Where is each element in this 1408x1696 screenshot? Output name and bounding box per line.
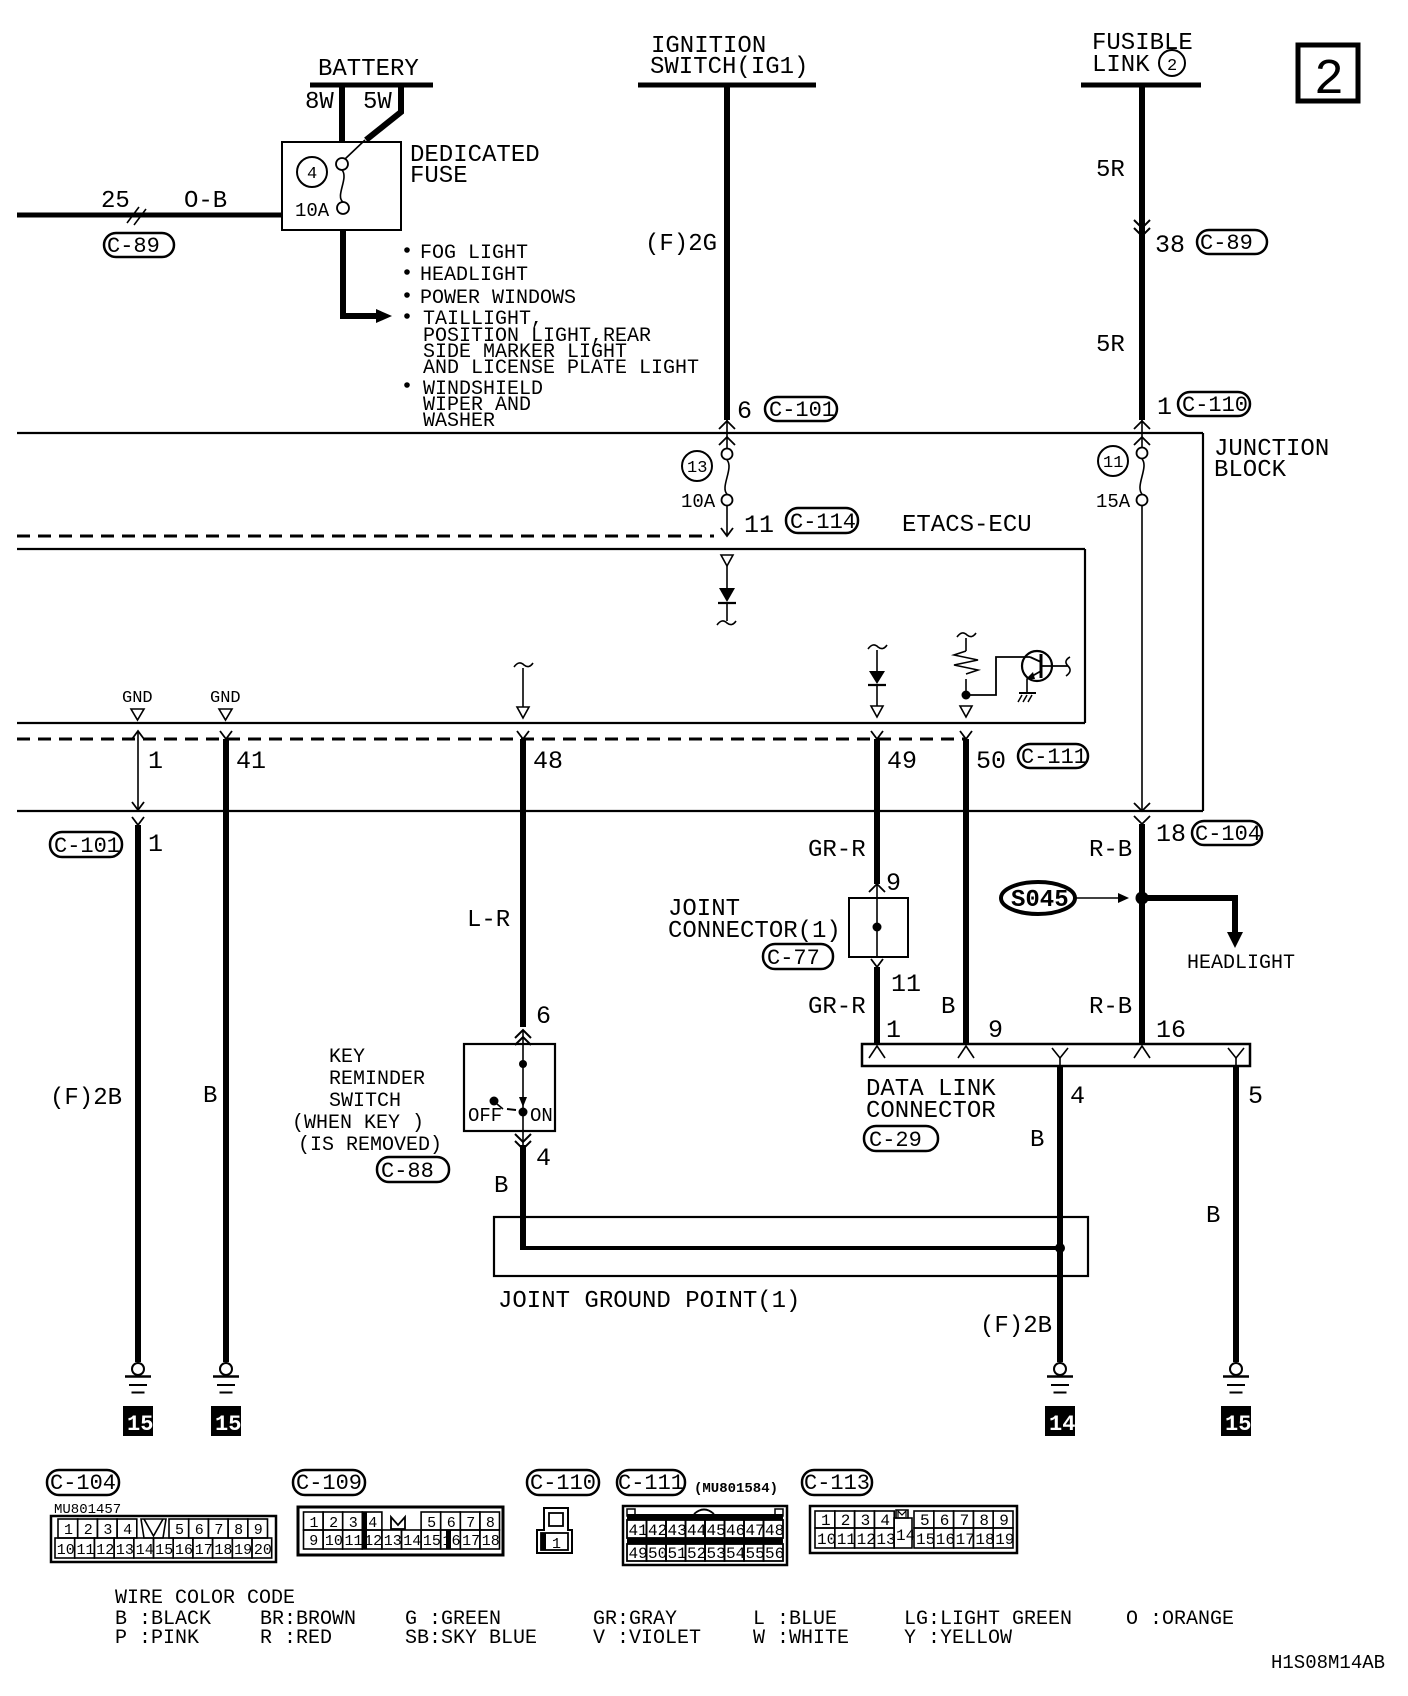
label 5R upper xyxy=(1096,157,1125,184)
svg-text:15: 15 xyxy=(916,1531,935,1549)
dedicated fuse box xyxy=(282,142,401,230)
ignition switch label xyxy=(650,33,808,81)
svg-text:52: 52 xyxy=(687,1545,706,1563)
transistor Q1 xyxy=(1022,651,1052,693)
label GR-R upper xyxy=(808,837,866,864)
svg-text:5: 5 xyxy=(175,1522,184,1539)
GND pin 1 xyxy=(122,689,153,720)
svg-text:C-110: C-110 xyxy=(530,1471,596,1496)
svg-text:OFF: OFF xyxy=(468,1105,502,1127)
svg-text:H1S08M14AB: H1S08M14AB xyxy=(1271,1652,1385,1674)
diode D1 xyxy=(717,588,736,625)
svg-text:50: 50 xyxy=(976,747,1006,776)
svg-text:C-104: C-104 xyxy=(50,1471,116,1496)
fuse number circle 4 xyxy=(297,157,327,187)
svg-text:C-110: C-110 xyxy=(1182,393,1248,418)
wire key switch to ground point xyxy=(520,1145,526,1247)
svg-text:C-88: C-88 xyxy=(381,1159,434,1184)
svg-text:1: 1 xyxy=(886,1016,901,1045)
svg-text:10: 10 xyxy=(325,1533,343,1550)
svg-text:17: 17 xyxy=(195,1542,213,1559)
svg-text:CONNECTOR: CONNECTOR xyxy=(866,1098,996,1125)
label pin 4 key switch xyxy=(536,1144,551,1173)
svg-text:GND: GND xyxy=(210,689,241,708)
ETACS-ECU box top edge xyxy=(17,548,1085,550)
DLC terminal pin 4 xyxy=(1052,1048,1068,1066)
label (F)2B left xyxy=(50,1085,122,1112)
joint ground point box xyxy=(494,1217,1088,1276)
svg-text:4: 4 xyxy=(123,1522,132,1539)
DLC terminal pin 5 xyxy=(1228,1048,1244,1066)
svg-text:B: B xyxy=(1030,1127,1044,1154)
svg-text:13: 13 xyxy=(687,459,707,478)
connector C-110 top xyxy=(1178,392,1250,418)
drawing number xyxy=(1271,1652,1385,1674)
C-111 body xyxy=(623,1506,787,1565)
svg-text:15: 15 xyxy=(1225,1412,1251,1437)
C-110 body xyxy=(537,1508,572,1553)
svg-text:50: 50 xyxy=(648,1545,667,1563)
svg-text:18: 18 xyxy=(482,1533,500,1550)
label pin 16 DLC xyxy=(1156,1016,1186,1045)
fuse number circle 11 xyxy=(1098,446,1128,476)
label MU801584 xyxy=(694,1481,778,1497)
svg-text:R :RED: R :RED xyxy=(260,1627,332,1650)
joint ground point label xyxy=(498,1288,800,1315)
svg-text:C-111: C-111 xyxy=(618,1471,684,1496)
svg-text:C-101: C-101 xyxy=(769,398,835,423)
connector C-114 xyxy=(786,508,858,535)
svg-text:KEY: KEY xyxy=(329,1046,365,1069)
svg-text:15: 15 xyxy=(127,1412,153,1437)
svg-text:ON: ON xyxy=(530,1105,553,1127)
fusible link bus bar xyxy=(1081,83,1201,88)
wire color code legend xyxy=(115,1587,1234,1650)
label pin 41 xyxy=(236,747,266,776)
svg-text:17: 17 xyxy=(462,1533,480,1550)
svg-text:10A: 10A xyxy=(681,491,716,513)
svg-text:38: 38 xyxy=(1155,231,1185,260)
svg-text:4: 4 xyxy=(307,165,317,184)
svg-text:16: 16 xyxy=(936,1531,955,1549)
connector C-111 mid xyxy=(1018,744,1088,770)
junction block right edge xyxy=(1202,433,1204,811)
svg-text:4: 4 xyxy=(368,1515,377,1532)
fusible link label xyxy=(1092,30,1193,79)
svg-text:HEADLIGHT: HEADLIGHT xyxy=(1187,952,1295,975)
svg-text:LINK: LINK xyxy=(1092,52,1150,79)
svg-text:16: 16 xyxy=(443,1533,461,1550)
label B DLC5 xyxy=(1206,1203,1220,1230)
chevrons wire break 38 xyxy=(1134,220,1150,236)
svg-text:41: 41 xyxy=(236,747,266,776)
svg-text:44: 44 xyxy=(687,1522,706,1540)
svg-text:6: 6 xyxy=(536,1002,551,1031)
GND pin 41 xyxy=(210,689,241,720)
svg-text:7: 7 xyxy=(466,1515,475,1532)
svg-text:15A: 15A xyxy=(1096,491,1131,513)
label pin 1 DLC xyxy=(886,1016,901,1045)
svg-text:BATTERY: BATTERY xyxy=(318,56,419,83)
svg-text:5: 5 xyxy=(1248,1082,1263,1111)
C-113 body xyxy=(810,1506,1017,1553)
svg-text:(F)2B: (F)2B xyxy=(50,1085,122,1112)
splice S045 xyxy=(1001,882,1075,914)
connector C-89 left xyxy=(104,233,174,259)
svg-text:(F)2G: (F)2G xyxy=(645,231,717,258)
connector C-111 pinout xyxy=(617,1470,685,1496)
label pin 50 xyxy=(976,747,1006,776)
svg-text:6: 6 xyxy=(447,1515,456,1532)
svg-text:GR-R: GR-R xyxy=(808,837,866,864)
svg-text:P :PINK: P :PINK xyxy=(115,1627,199,1650)
svg-text:C-77: C-77 xyxy=(767,946,820,971)
svg-text:SB:SKY BLUE: SB:SKY BLUE xyxy=(405,1627,537,1650)
svg-text:56: 56 xyxy=(765,1545,784,1563)
svg-text:GR-R: GR-R xyxy=(808,994,866,1021)
svg-text:5: 5 xyxy=(427,1515,436,1532)
wire break slashes xyxy=(127,207,146,225)
label pin 9 joint connector xyxy=(886,869,901,898)
svg-text:14: 14 xyxy=(896,1527,915,1545)
svg-text:9: 9 xyxy=(886,869,901,898)
joint connector exit arrow xyxy=(871,959,883,967)
label L-R xyxy=(467,907,510,934)
label 5R lower xyxy=(1096,332,1125,359)
svg-text:25: 25 xyxy=(101,188,130,215)
connector C-77 xyxy=(763,944,833,971)
wire 25 O-B from C-89 xyxy=(17,213,283,218)
label pin 11 joint connector xyxy=(891,970,921,999)
svg-text:B: B xyxy=(494,1173,508,1200)
label 5W xyxy=(363,89,392,116)
svg-text:1: 1 xyxy=(310,1515,319,1532)
wire DLC5 B down xyxy=(1233,1066,1239,1362)
svg-text:4: 4 xyxy=(536,1144,551,1173)
svg-text:54: 54 xyxy=(726,1545,745,1563)
ETACS pin 49 exit triangle xyxy=(871,706,883,717)
svg-text:POWER WINDOWS: POWER WINDOWS xyxy=(420,287,576,310)
svg-text:8: 8 xyxy=(486,1515,495,1532)
svg-text:HEADLIGHT: HEADLIGHT xyxy=(420,264,528,287)
connector C-89 right xyxy=(1197,230,1267,256)
wire 41 B to ground xyxy=(220,731,232,1362)
svg-text:11: 11 xyxy=(77,1542,95,1559)
svg-text:C-101: C-101 xyxy=(54,834,120,859)
joint connector C-77 box xyxy=(849,898,908,957)
wire 49 GR-R upper xyxy=(871,731,883,884)
svg-text:C-104: C-104 xyxy=(1195,822,1261,847)
label pin 18 C-104 xyxy=(1156,820,1186,849)
svg-text:2: 2 xyxy=(84,1522,93,1539)
battery label xyxy=(318,56,419,83)
ETACS pin 50 exit triangle xyxy=(960,706,972,717)
svg-text:WASHER: WASHER xyxy=(423,410,495,433)
svg-text:14: 14 xyxy=(403,1533,421,1550)
svg-text:8W: 8W xyxy=(305,89,334,116)
joint connector label xyxy=(668,896,841,945)
svg-text:(WHEN KEY ): (WHEN KEY ) xyxy=(292,1112,424,1135)
label pin 1 lower xyxy=(148,830,163,859)
junction block bus dashed lower xyxy=(17,738,966,741)
label (F)2B right xyxy=(980,1313,1052,1340)
connector C-113 pinout xyxy=(802,1470,872,1496)
svg-text:3: 3 xyxy=(349,1515,358,1532)
svg-text:O-B: O-B xyxy=(184,188,227,215)
svg-text:(MU801584): (MU801584) xyxy=(694,1481,778,1497)
label 15A fuse 11 xyxy=(1096,491,1131,513)
connector C-109 pinout xyxy=(293,1470,365,1496)
ground ref box 14 xyxy=(1045,1406,1075,1437)
label OFF xyxy=(468,1105,502,1127)
ground ref box 15 a xyxy=(123,1406,153,1437)
svg-text:R-B: R-B xyxy=(1089,994,1132,1021)
ground symbol DLC5 xyxy=(1223,1363,1249,1393)
svg-text:12: 12 xyxy=(857,1531,876,1549)
ground transistor emitter xyxy=(1018,693,1036,702)
wire fuse 13 to ETACS xyxy=(721,506,733,536)
svg-text:10: 10 xyxy=(57,1542,75,1559)
svg-text:ETACS-ECU: ETACS-ECU xyxy=(902,512,1032,539)
svg-text:FOG LIGHT: FOG LIGHT xyxy=(420,242,528,265)
svg-text:20: 20 xyxy=(254,1542,272,1559)
svg-text:B: B xyxy=(941,994,955,1021)
svg-text:CONNECTOR(1): CONNECTOR(1) xyxy=(668,918,841,945)
svg-text:5W: 5W xyxy=(363,89,392,116)
key switch exit chevrons xyxy=(515,1131,531,1149)
svg-text:16: 16 xyxy=(175,1542,193,1559)
svg-text:13: 13 xyxy=(384,1533,402,1550)
junction block bus dashed upper xyxy=(17,535,714,538)
svg-text:1: 1 xyxy=(552,1536,561,1553)
ground ref box 15 b xyxy=(211,1406,241,1437)
svg-text:11: 11 xyxy=(1103,454,1123,473)
label MU801457 xyxy=(54,1502,121,1518)
svg-text:42: 42 xyxy=(648,1522,667,1540)
svg-text:4: 4 xyxy=(1070,1082,1085,1111)
wire 50 B to DLC9 xyxy=(960,731,972,1044)
ground symbol wire41 xyxy=(213,1363,239,1393)
svg-text:11: 11 xyxy=(891,970,921,999)
connector C-29 xyxy=(864,1126,938,1153)
label pin 1 C-110 xyxy=(1157,393,1172,422)
svg-text:5R: 5R xyxy=(1096,332,1125,359)
svg-text:11: 11 xyxy=(345,1533,363,1550)
label B wire41 xyxy=(203,1083,217,1110)
key reminder switch box xyxy=(464,1044,555,1131)
fuse F13 element xyxy=(722,449,733,506)
ground symbol DLC4 xyxy=(1047,1363,1073,1393)
svg-text:6: 6 xyxy=(195,1522,204,1539)
fusible wire block entry arrows xyxy=(1134,420,1150,447)
svg-text:48: 48 xyxy=(533,747,563,776)
svg-text:C-114: C-114 xyxy=(790,510,856,535)
label O-B xyxy=(184,188,227,215)
svg-text:2: 2 xyxy=(1167,57,1177,76)
node S045 junction xyxy=(1136,892,1149,905)
svg-text:C-109: C-109 xyxy=(296,1471,362,1496)
svg-text:10A: 10A xyxy=(295,200,330,222)
svg-text:12: 12 xyxy=(96,1542,114,1559)
connector C-88 xyxy=(377,1157,449,1184)
wire fusible link 5R upper xyxy=(1139,85,1145,420)
connector C-110 pinout xyxy=(527,1470,599,1496)
svg-text:BLOCK: BLOCK xyxy=(1214,457,1287,484)
dedicated fuse label xyxy=(410,142,540,190)
label R-B lower xyxy=(1089,994,1132,1021)
junction block label xyxy=(1214,436,1329,484)
svg-text:18: 18 xyxy=(214,1542,232,1559)
ground ref box 15 c xyxy=(1221,1406,1251,1437)
svg-text:43: 43 xyxy=(668,1522,687,1540)
connector C-104 pinout xyxy=(47,1470,119,1496)
svg-text:49: 49 xyxy=(887,747,917,776)
svg-text:15: 15 xyxy=(155,1542,173,1559)
label pin 6 key switch xyxy=(536,1002,551,1031)
label 25 xyxy=(101,188,130,215)
svg-text:15: 15 xyxy=(215,1412,241,1437)
svg-text:2: 2 xyxy=(329,1515,338,1532)
svg-text:Y :YELLOW: Y :YELLOW xyxy=(904,1627,1012,1650)
label pin 49 xyxy=(887,747,917,776)
svg-text:6: 6 xyxy=(737,397,752,426)
svg-text:GND: GND xyxy=(122,689,153,708)
svg-text:15: 15 xyxy=(423,1533,441,1550)
ignition switch bus bar xyxy=(638,83,816,88)
label pin 6 xyxy=(737,397,752,426)
wire R-B fusible to DLC16 xyxy=(1139,824,1145,1044)
key switch OFF contact xyxy=(490,1097,517,1111)
svg-text:5R: 5R xyxy=(1096,157,1125,184)
svg-text:1: 1 xyxy=(148,747,163,776)
label R-B upper xyxy=(1089,837,1132,864)
label pin 11 C-114 xyxy=(744,511,774,540)
svg-text:WIRE COLOR CODE: WIRE COLOR CODE xyxy=(115,1587,295,1610)
svg-text:53: 53 xyxy=(707,1545,726,1563)
C-104 body xyxy=(51,1516,276,1562)
svg-text:C-89: C-89 xyxy=(107,234,160,259)
svg-text:46: 46 xyxy=(726,1522,745,1540)
ETACS pin 48 stub xyxy=(514,663,533,718)
svg-text:17: 17 xyxy=(956,1531,975,1549)
svg-text:55: 55 xyxy=(746,1545,765,1563)
svg-text:O :ORANGE: O :ORANGE xyxy=(1126,1608,1234,1631)
svg-text:11: 11 xyxy=(744,511,774,540)
DLC terminal pin 1 xyxy=(869,1046,885,1058)
svg-text:1: 1 xyxy=(64,1522,73,1539)
svg-text:REMINDER: REMINDER xyxy=(329,1068,425,1091)
node ground bus junction xyxy=(1055,1243,1065,1253)
svg-text:51: 51 xyxy=(668,1545,687,1563)
label ON xyxy=(530,1105,553,1127)
connector C-104 top xyxy=(1192,821,1262,847)
svg-text:W :WHITE: W :WHITE xyxy=(753,1627,849,1650)
wire DLC4 B down xyxy=(1057,1066,1063,1362)
svg-text:9: 9 xyxy=(988,1016,1003,1045)
svg-text:B: B xyxy=(1206,1203,1220,1230)
svg-text:13: 13 xyxy=(116,1542,134,1559)
svg-text:JOINT GROUND POINT(1): JOINT GROUND POINT(1) xyxy=(498,1288,800,1315)
svg-text:(F)2B: (F)2B xyxy=(980,1313,1052,1340)
svg-text:10: 10 xyxy=(817,1531,836,1549)
ETACS-ECU label xyxy=(902,512,1032,539)
DLC terminal pin 16 xyxy=(1134,1046,1150,1058)
load list bullets xyxy=(404,247,410,388)
IG1 wire block entry arrows xyxy=(719,420,735,448)
svg-text:SWITCH(IG1): SWITCH(IG1) xyxy=(650,54,808,81)
svg-text:9: 9 xyxy=(309,1533,318,1550)
connector C-101 bottom xyxy=(50,832,122,859)
label pin 1 upper xyxy=(148,747,163,776)
wire 49 GR-R lower xyxy=(874,967,880,1044)
data link connector box xyxy=(862,1044,1250,1066)
svg-text:41: 41 xyxy=(629,1522,648,1540)
svg-text:19: 19 xyxy=(234,1542,252,1559)
label pin 4 xyxy=(1070,1082,1085,1111)
label B DLC4 xyxy=(1030,1127,1044,1154)
label pin 5 xyxy=(1248,1082,1263,1111)
svg-text:FUSE: FUSE xyxy=(410,163,468,190)
connector C-101 top xyxy=(765,397,837,423)
label pin 9 DLC xyxy=(988,1016,1003,1045)
label GR-R lower xyxy=(808,994,866,1021)
svg-text:1: 1 xyxy=(148,830,163,859)
resistor R1 on pin 50 xyxy=(954,633,978,691)
fuse F4 element xyxy=(336,158,349,214)
battery bus bar xyxy=(310,83,433,88)
svg-text:1: 1 xyxy=(1157,393,1172,422)
ETACS-ECU box bottom edge xyxy=(17,722,1085,724)
C-109 body xyxy=(298,1507,503,1555)
svg-text:48: 48 xyxy=(765,1522,784,1540)
label 10A fuse 4 xyxy=(295,200,330,222)
wire battery 5W xyxy=(345,85,401,159)
key switch wire and contacts xyxy=(519,1044,528,1131)
svg-text:45: 45 xyxy=(707,1522,726,1540)
svg-text:14: 14 xyxy=(1049,1412,1075,1437)
wire base link xyxy=(966,657,1030,695)
wire ground bus horizontal xyxy=(523,1244,1060,1250)
joint connector entry arrow xyxy=(869,884,885,898)
wire fuse 11 down through block xyxy=(1134,506,1150,824)
load list text xyxy=(420,242,699,433)
svg-text:18: 18 xyxy=(975,1531,994,1549)
key switch entry chevrons xyxy=(515,1030,531,1045)
svg-text:C-111: C-111 xyxy=(1021,745,1087,770)
fuse F11 element xyxy=(1137,448,1148,506)
label 8W xyxy=(305,89,334,116)
label 10A fuse 13 xyxy=(681,491,716,513)
ground symbol wire1 xyxy=(125,1363,151,1393)
ETACS pin 11 entry triangle xyxy=(721,555,733,588)
label pin 48 xyxy=(533,747,563,776)
svg-text:C-89: C-89 xyxy=(1200,231,1253,256)
svg-text:AND LICENSE PLATE LIGHT: AND LICENSE PLATE LIGHT xyxy=(423,357,699,380)
wire collector out xyxy=(1041,657,1070,676)
svg-text:13: 13 xyxy=(876,1531,895,1549)
fuse number circle 13 xyxy=(682,451,712,481)
page number box 2 xyxy=(1298,45,1358,109)
svg-text:2: 2 xyxy=(1314,52,1344,109)
DLC terminal pin 9 xyxy=(958,1046,974,1058)
diode D2 on pin 49 xyxy=(868,645,887,706)
label B wire50 xyxy=(941,994,955,1021)
wire headlight branch xyxy=(1142,898,1243,948)
wire fuse output arrow xyxy=(343,230,392,323)
node resistor-transistor junction xyxy=(962,691,971,700)
svg-text:V :VIOLET: V :VIOLET xyxy=(593,1627,701,1650)
svg-text:11: 11 xyxy=(837,1531,856,1549)
